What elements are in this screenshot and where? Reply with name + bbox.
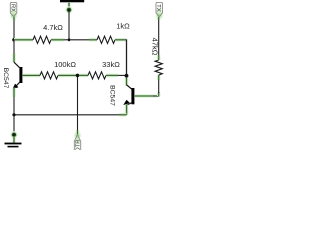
flag DTR glow xyxy=(73,131,81,139)
svg-text:33kΩ: 33kΩ xyxy=(102,60,120,69)
wire Q2 collector lead xyxy=(125,78,129,86)
resistor R3 100k zigzag xyxy=(40,72,58,79)
wire R3 right lead to node C xyxy=(58,74,76,78)
svg-text:BC547: BC547 xyxy=(109,85,116,106)
flag DTR xyxy=(74,134,80,152)
node D dot (14,114.8) xyxy=(12,113,15,116)
node A dot (14,39.8) xyxy=(12,38,16,42)
svg-text:BC547: BC547 xyxy=(2,68,9,89)
pin dot ground xyxy=(10,131,17,138)
resistor R2 1k zigzag xyxy=(97,36,115,43)
flag TX xyxy=(156,2,163,16)
node VCC tap dot xyxy=(68,38,71,41)
wire top rail segment A to R1 xyxy=(14,38,33,42)
wire R2 right lead to corner xyxy=(115,38,126,42)
svg-text:47kΩ: 47kΩ xyxy=(150,38,159,56)
wire Q1 collector from node A xyxy=(13,40,15,54)
flag RX xyxy=(10,2,16,16)
wire node C to R4 xyxy=(79,74,88,78)
flag TX glow xyxy=(155,12,163,20)
transistor Q2 BC547 xyxy=(127,85,132,89)
svg-text:1kΩ: 1kΩ xyxy=(116,22,130,31)
wire R1 right lead xyxy=(51,38,65,42)
svg-text:100kΩ: 100kΩ xyxy=(54,60,76,69)
wire Q2 emitter lead xyxy=(125,105,129,115)
wire R5 top lead xyxy=(157,55,161,60)
wire left rail top (RX to node A) xyxy=(13,17,15,40)
wire VCC stub xyxy=(67,2,71,8)
pin dot VCC xyxy=(65,6,72,13)
resistor R4 33k zigzag xyxy=(88,72,106,79)
svg-text:RX: RX xyxy=(10,4,16,12)
wire right column up xyxy=(158,92,160,97)
resistor R5 47k zigzag (vertical) xyxy=(155,60,162,75)
node C dot (77.5,75.4) xyxy=(76,74,80,78)
wire Q1 base lead xyxy=(22,74,40,78)
transistor Q1 BC547 xyxy=(14,62,20,67)
wire bottom rail xyxy=(14,114,119,116)
wire Q1 emitter lead xyxy=(12,88,16,97)
wire right drop corner to node B xyxy=(126,39,128,75)
ground xyxy=(5,143,22,145)
wire node C drop to DTR xyxy=(77,77,79,134)
wire ground stub xyxy=(12,137,16,143)
svg-text:4.7kΩ: 4.7kΩ xyxy=(43,23,63,32)
node B dot (126.5,75.7) xyxy=(125,74,129,78)
power rail VCC bar xyxy=(60,0,84,2)
resistor R1 4.7k zigzag xyxy=(33,36,51,43)
svg-text:TX: TX xyxy=(155,4,161,12)
svg-text:DTR: DTR xyxy=(76,140,82,150)
wire VCC drop to top rail xyxy=(68,12,70,40)
flag RX glow xyxy=(9,12,17,20)
wire Q2 base to right column xyxy=(134,94,157,98)
wire top rail VCC to R2 xyxy=(70,39,89,41)
wire R4 right lead xyxy=(106,74,118,78)
